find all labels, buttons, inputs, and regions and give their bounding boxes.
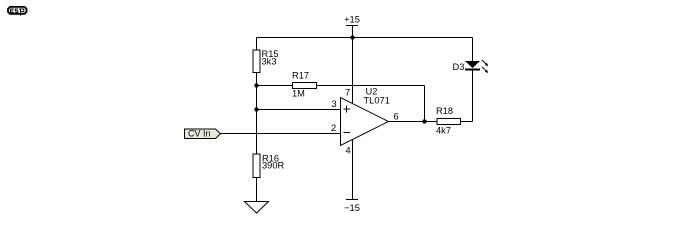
svg-text:R18: R18 bbox=[436, 106, 453, 116]
svg-text:D3: D3 bbox=[453, 62, 465, 72]
svg-text:R17: R17 bbox=[292, 71, 309, 81]
svg-text:1M: 1M bbox=[292, 89, 305, 99]
svg-text:CV In: CV In bbox=[188, 129, 211, 139]
svg-text:7: 7 bbox=[345, 88, 350, 98]
svg-text:−15: −15 bbox=[344, 203, 360, 213]
svg-text:3k3: 3k3 bbox=[262, 57, 277, 67]
svg-text:TL071: TL071 bbox=[364, 96, 390, 106]
svg-text:3: 3 bbox=[332, 99, 337, 109]
svg-text:4: 4 bbox=[346, 146, 351, 156]
svg-text:6: 6 bbox=[394, 112, 399, 122]
svg-text:2: 2 bbox=[331, 123, 336, 133]
svg-text:4k7: 4k7 bbox=[436, 126, 451, 136]
svg-text:390R: 390R bbox=[262, 161, 285, 171]
svg-text:+15: +15 bbox=[344, 15, 360, 25]
